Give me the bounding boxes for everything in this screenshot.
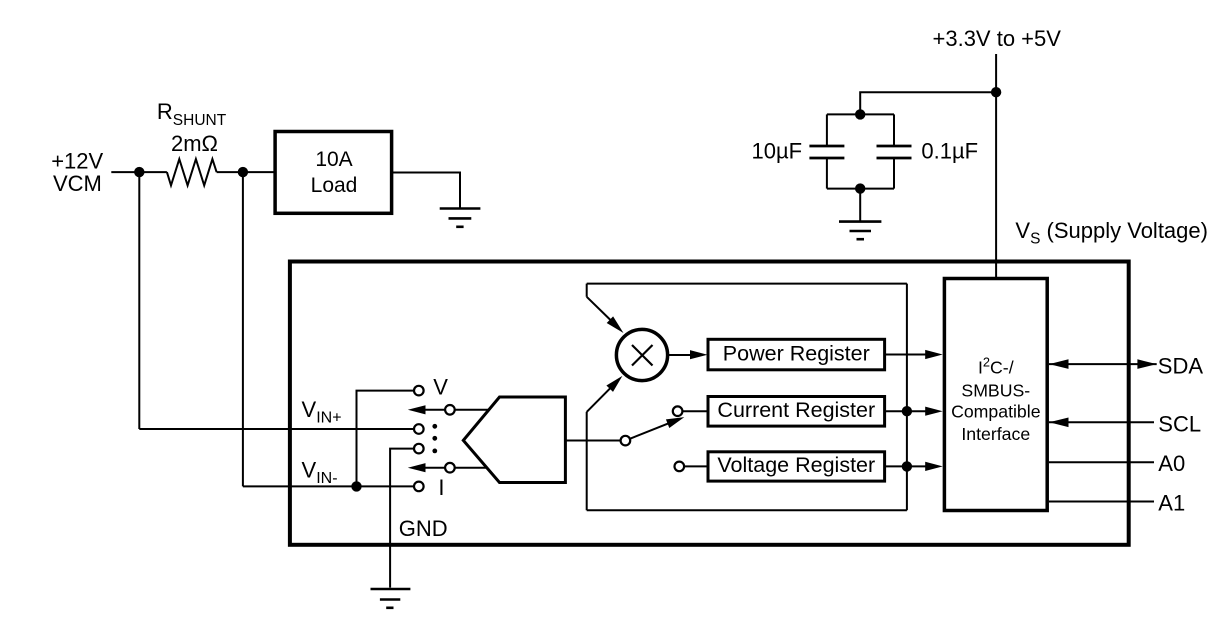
pin voltage register input circle (675, 462, 685, 472)
svg-text:Load: Load (311, 174, 358, 197)
wire voltage register to interface (885, 461, 943, 471)
switch arm bottom (408, 463, 487, 473)
svg-text:Voltage Register: Voltage Register (717, 453, 875, 477)
svg-text:0.1µF: 0.1µF (921, 139, 978, 164)
pin current register input circle (673, 406, 683, 416)
resistor RSHUNT (167, 159, 217, 185)
wire capacitor to ground (859, 189, 861, 221)
load box 10A Load (275, 132, 392, 214)
switch arm top (408, 405, 489, 415)
wire amp output (565, 440, 620, 442)
register Voltage (708, 452, 885, 481)
node B (shunt right) (238, 167, 248, 177)
wire capacitor bottom rail (827, 188, 894, 190)
node VIN- junction (351, 481, 361, 491)
multiplier X circle (616, 329, 667, 380)
pin VIN+ circle (414, 424, 424, 434)
capacitor C2 0.1uF (877, 114, 912, 188)
svg-text:A1: A1 (1158, 491, 1185, 516)
wire VIN- horizontal (243, 485, 414, 487)
op-amp ADC pentagon (463, 397, 565, 483)
svg-text:VCM: VCM (53, 171, 102, 196)
svg-text:Interface: Interface (961, 424, 1030, 444)
wire feedback bottom diagonal (587, 376, 623, 412)
wire current input (682, 410, 708, 412)
switch pivot circle (621, 436, 631, 446)
svg-text:2mΩ: 2mΩ (171, 131, 218, 156)
svg-text:SMBUS-: SMBUS- (961, 380, 1030, 400)
wire V pin link (357, 391, 415, 487)
wire current register to interface (885, 406, 943, 416)
feedback loop box (587, 284, 907, 511)
wire SDA bidirectional (1049, 359, 1157, 369)
mux dots (432, 424, 437, 453)
ground capacitor (839, 222, 881, 240)
wire power register to interface (885, 350, 943, 359)
ground load (440, 209, 481, 227)
node A (shunt left) (134, 167, 144, 177)
svg-text:+3.3V to +5V: +3.3V to +5V (933, 26, 1062, 51)
svg-text:+12V: +12V (51, 149, 103, 174)
node capacitor top (855, 109, 865, 119)
wire load to ground (392, 173, 460, 208)
wire A0 (1049, 461, 1154, 463)
capacitor C1 10uF (809, 114, 844, 188)
wire SCL (1049, 418, 1154, 428)
wire A1 (1049, 501, 1154, 503)
wire from +12V (111, 171, 167, 173)
wire VIN+ horizontal (139, 428, 414, 430)
svg-text:10A: 10A (315, 148, 352, 171)
wire GND pin link (390, 449, 414, 588)
interface box I2C/SMBUS (944, 279, 1047, 511)
svg-text:Power Register: Power Register (723, 341, 870, 365)
svg-text:Compatible: Compatible (951, 402, 1041, 422)
wire node B down (242, 172, 244, 486)
svg-text:SCL: SCL (1158, 412, 1201, 437)
wire voltage input (684, 465, 708, 467)
register Power (708, 339, 885, 370)
svg-text:Current Register: Current Register (717, 398, 875, 422)
svg-text:10µF: 10µF (752, 139, 803, 164)
svg-text:GND: GND (399, 516, 448, 541)
wire supply to caps (860, 92, 996, 114)
switch arm output (630, 417, 685, 439)
svg-text:SDA: SDA (1158, 354, 1204, 379)
pin V circle (414, 386, 424, 396)
wire feedback top diagonal (587, 284, 624, 333)
wire supply vertical (995, 54, 997, 277)
ground GND pin (371, 589, 411, 608)
pin I circle (414, 482, 424, 492)
register Current (708, 397, 885, 427)
wire node A down (138, 172, 140, 429)
node supply junction (991, 87, 1001, 97)
pin GND circle (414, 444, 424, 454)
wire multiplier to power register (667, 350, 708, 359)
wire shunt to load (217, 171, 276, 173)
svg-text:V: V (433, 375, 448, 400)
node capacitor bottom (855, 183, 865, 193)
svg-text:I: I (438, 475, 444, 500)
IC outline U1 (290, 262, 1129, 545)
svg-text:A0: A0 (1158, 451, 1185, 476)
wire capacitor top rail (827, 113, 894, 115)
